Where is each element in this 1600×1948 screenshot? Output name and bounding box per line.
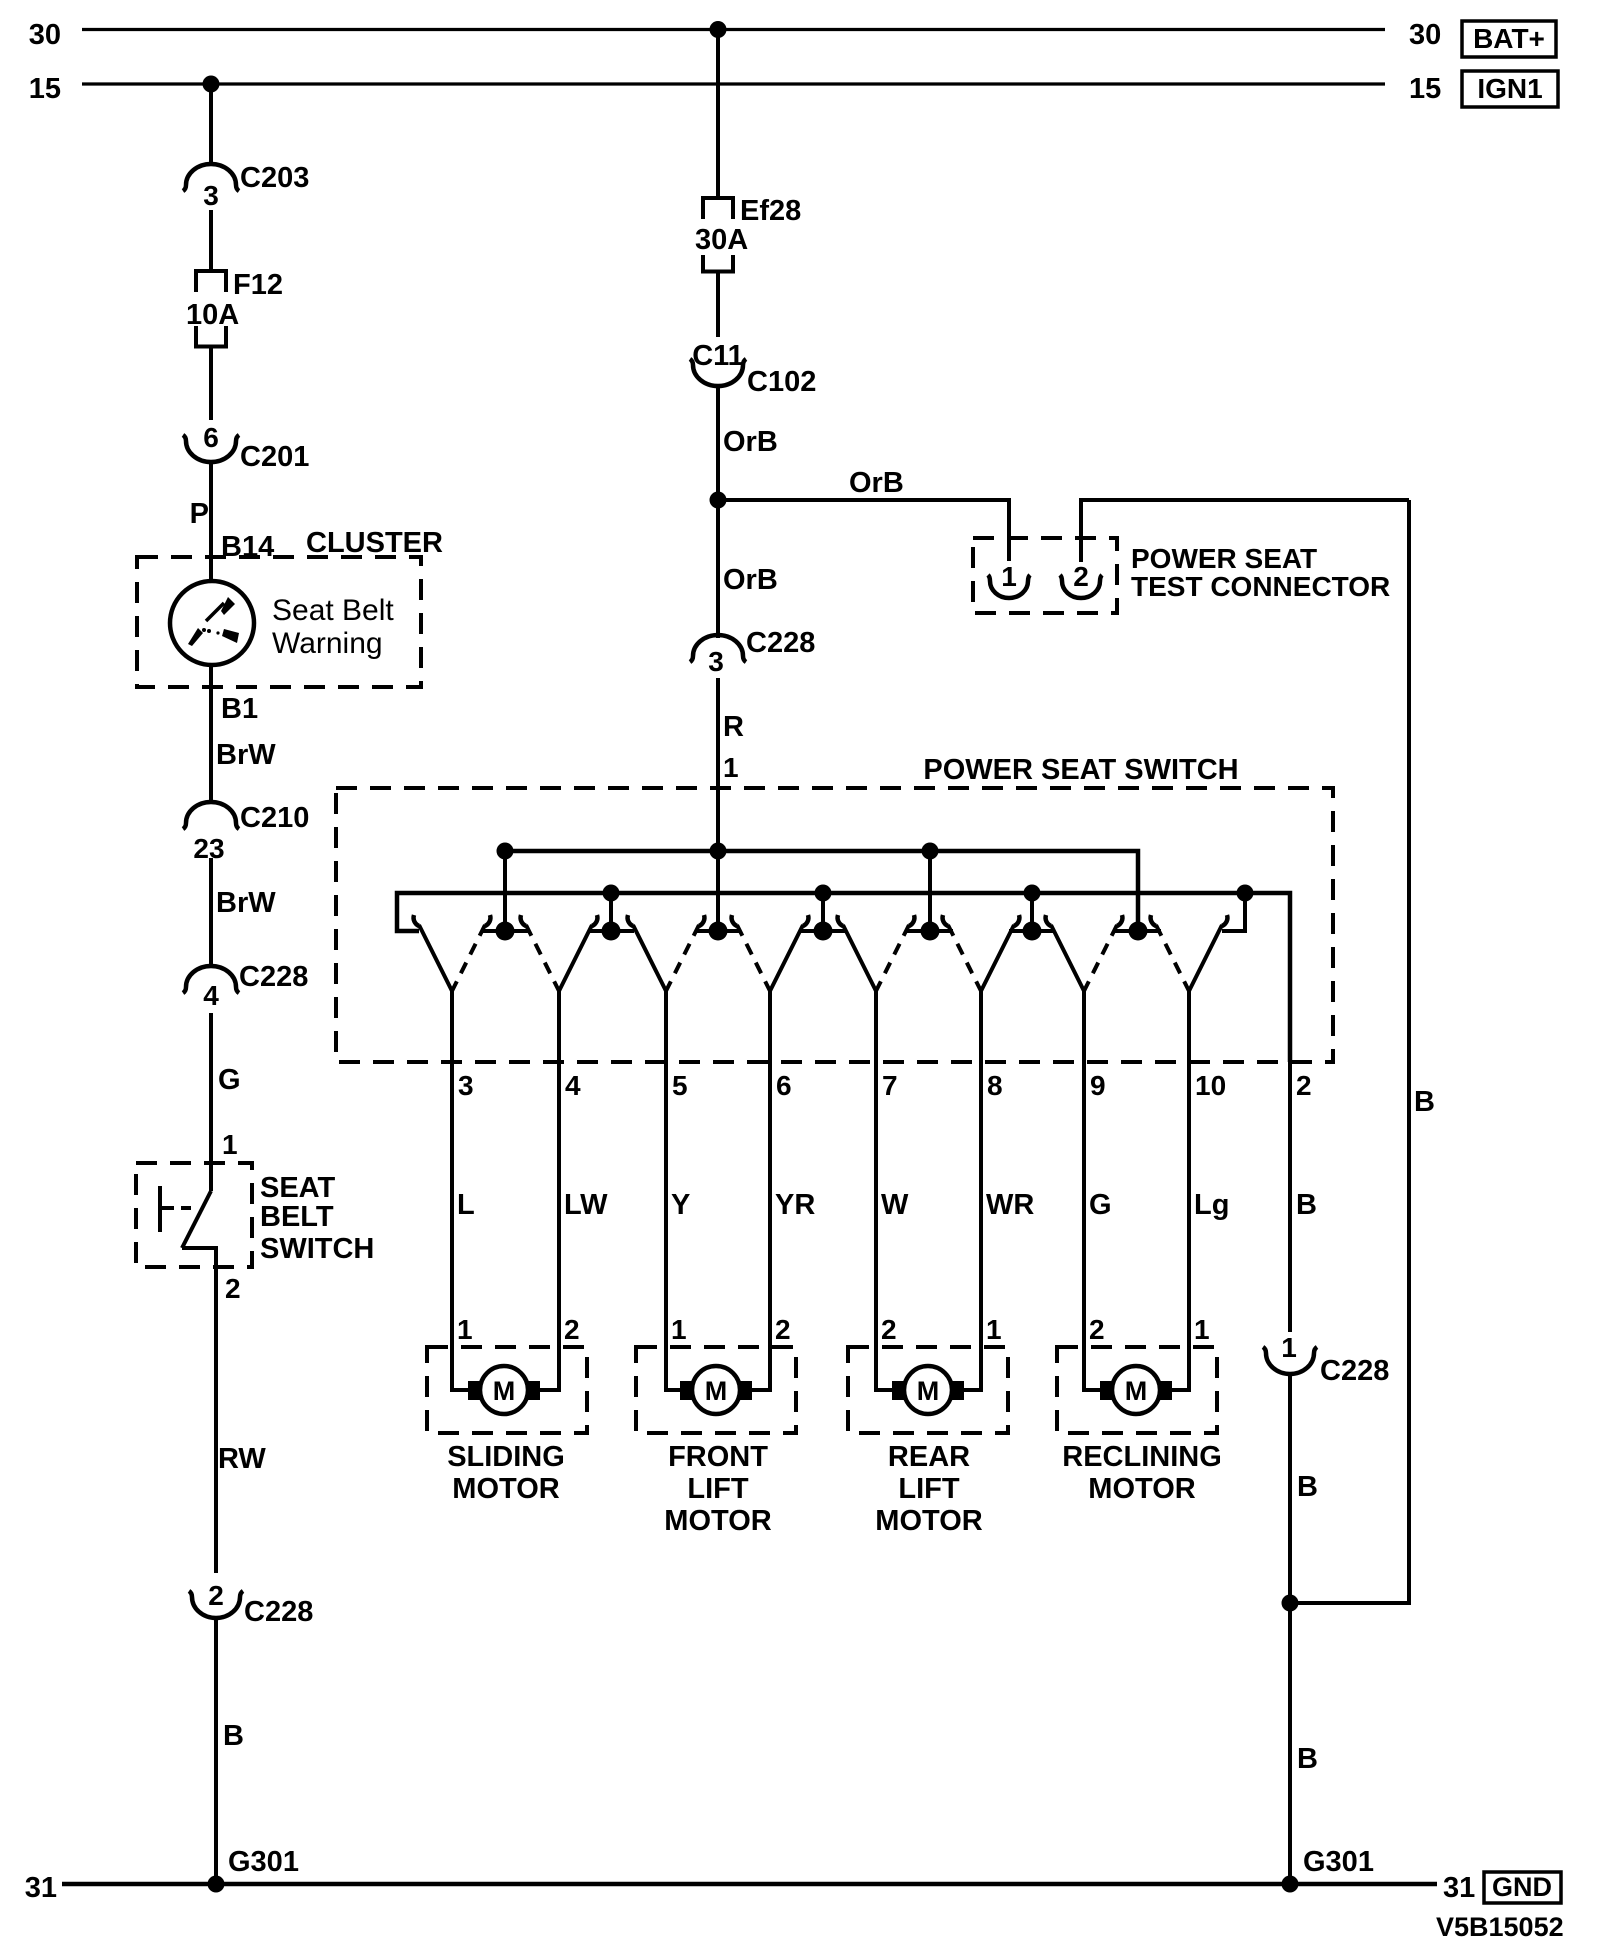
label REAR LIFT MOTOR: [875, 1441, 982, 1537]
label FRONT LIFT MOTOR: [664, 1441, 771, 1537]
svg-text:IGN1: IGN1: [1477, 73, 1542, 104]
wire riser contact 6: [1030, 893, 1034, 931]
wire rail 30 (BAT+): [82, 28, 1385, 31]
wire pin 6 to front lift motor, YR: [752, 989, 770, 1390]
svg-text:OrB: OrB: [723, 426, 778, 458]
node junction rail15 / C203 feed: [203, 76, 220, 93]
svg-text:MOTOR: MOTOR: [664, 1505, 771, 1537]
label SEAT BELT SWITCH: [260, 1172, 374, 1265]
label Seat Belt Warning: [272, 594, 394, 660]
svg-text:C203: C203: [240, 162, 309, 194]
svg-text:LIFT: LIFT: [687, 1473, 748, 1505]
svg-text:5: 5: [672, 1070, 688, 1101]
node top bus junctions: [497, 843, 939, 860]
svg-text:L: L: [457, 1189, 475, 1221]
node junction B wires: [1282, 1595, 1299, 1612]
svg-text:2: 2: [225, 1273, 241, 1304]
wire rail15 to connector C203: [209, 84, 213, 166]
wire pin 10 to reclining motor, Lg: [1170, 989, 1189, 1390]
svg-text:Seat Belt: Seat Belt: [272, 594, 394, 627]
svg-text:P: P: [190, 498, 209, 530]
svg-text:30: 30: [1409, 19, 1441, 51]
svg-text:3: 3: [458, 1070, 474, 1101]
wire riser contact 8: [1222, 893, 1245, 931]
svg-text:C228: C228: [239, 961, 308, 993]
wire C210 to C228, BrW: [209, 858, 213, 967]
wire riser contact 2: [609, 893, 613, 931]
wire riser contact 5: [928, 851, 932, 931]
svg-text:4: 4: [203, 980, 219, 1011]
svg-text:C102: C102: [747, 366, 816, 398]
test connector pin 1: [988, 561, 1030, 598]
svg-text:SEAT: SEAT: [260, 1172, 335, 1204]
svg-text:F12: F12: [233, 269, 283, 301]
cluster box: [137, 557, 421, 687]
terminal IGN1: [1462, 71, 1558, 107]
svg-text:8: 8: [987, 1070, 1003, 1101]
wire C201 to cluster, P: [209, 461, 213, 583]
svg-text:TEST CONNECTOR: TEST CONNECTOR: [1131, 571, 1390, 602]
svg-text:1: 1: [986, 1314, 1002, 1345]
wire contact tick 6: [1009, 929, 1055, 933]
switch 7 (pin 9): [1046, 915, 1123, 991]
connector C228 pin 3 (mid): [690, 627, 815, 677]
switch 6 (pin 8): [943, 915, 1020, 991]
power seat test connector box: [973, 538, 1117, 613]
wire C102 to junction, OrB: [716, 386, 720, 502]
svg-text:2: 2: [881, 1314, 897, 1345]
svg-text:OrB: OrB: [849, 467, 904, 499]
svg-text:V5B15052: V5B15052: [1436, 1912, 1564, 1942]
svg-text:YR: YR: [775, 1189, 815, 1221]
svg-text:15: 15: [29, 73, 61, 105]
wire seat belt switch to C228, RW: [214, 1248, 218, 1573]
svg-text:GND: GND: [1492, 1872, 1552, 1902]
node junction OrB split: [710, 492, 727, 509]
wire top bus: [505, 851, 1138, 931]
svg-text:WR: WR: [986, 1189, 1034, 1221]
wire switch pin 2 to C228, B: [1288, 1062, 1292, 1332]
svg-text:G301: G301: [1303, 1846, 1374, 1878]
svg-text:Y: Y: [671, 1189, 690, 1221]
switch 3 (pin 5): [628, 915, 705, 991]
wire rail 15 (IGN1): [82, 82, 1385, 85]
node G301 left on rail 31: [208, 1876, 225, 1893]
svg-text:SWITCH: SWITCH: [260, 1233, 374, 1265]
node contact dots: [496, 922, 1148, 941]
wire C228 to seat belt switch, G: [209, 1013, 213, 1191]
wire pin 5 to front lift motor, Y: [666, 989, 682, 1390]
svg-text:30: 30: [29, 19, 61, 51]
svg-text:B: B: [1297, 1743, 1318, 1775]
svg-text:BrW: BrW: [216, 887, 276, 919]
test connector pin 2: [1060, 561, 1102, 598]
svg-text:1: 1: [457, 1314, 473, 1345]
svg-text:MOTOR: MOTOR: [452, 1473, 559, 1505]
wire rail 31 (GND): [62, 1882, 1437, 1887]
wire right side B from test connector down: [1290, 500, 1409, 1603]
reclining motor M4: [1057, 1347, 1217, 1433]
wire pin 9 to reclining motor, G: [1084, 989, 1102, 1390]
svg-text:10A: 10A: [186, 299, 239, 331]
wire contact tick 2: [588, 929, 634, 933]
svg-text:2: 2: [1296, 1070, 1312, 1101]
svg-text:1: 1: [222, 1129, 238, 1160]
wire riser contact 1: [503, 851, 507, 931]
svg-text:Lg: Lg: [1194, 1189, 1229, 1221]
svg-text:MOTOR: MOTOR: [1088, 1473, 1195, 1505]
svg-text:CLUSTER: CLUSTER: [306, 527, 443, 559]
svg-text:7: 7: [882, 1070, 898, 1101]
svg-text:Warning: Warning: [272, 627, 383, 660]
svg-text:POWER SEAT: POWER SEAT: [1131, 543, 1317, 574]
wire pin 4 to sliding motor, LW: [540, 989, 559, 1390]
terminal GND: [1484, 1872, 1561, 1903]
svg-text:POWER SEAT SWITCH: POWER SEAT SWITCH: [923, 754, 1238, 786]
wire riser contact 4: [821, 893, 825, 931]
svg-text:W: W: [881, 1189, 909, 1221]
svg-text:M: M: [917, 1376, 940, 1406]
label RECLINING MOTOR: [1062, 1441, 1222, 1505]
svg-text:M: M: [705, 1376, 728, 1406]
wire contact tick 4: [800, 929, 846, 933]
wire lower bus: [397, 893, 1290, 1062]
wire contact tick 5: [907, 929, 953, 933]
svg-text:C201: C201: [240, 441, 309, 473]
svg-text:B: B: [1296, 1189, 1317, 1221]
svg-text:G: G: [218, 1064, 241, 1096]
wire fuse Ef28 to connector C11: [716, 272, 720, 338]
wire pin 8 to rear lift motor, WR: [962, 989, 981, 1390]
wire pin 7 to rear lift motor, W: [876, 989, 894, 1390]
seat belt switch box: [136, 1163, 252, 1267]
svg-text:1: 1: [723, 752, 739, 783]
svg-text:3: 3: [203, 180, 219, 211]
front lift motor M2: [636, 1347, 796, 1433]
wire contact tick 3: [695, 929, 741, 933]
svg-text:31: 31: [1443, 1872, 1475, 1904]
connector C11 C102: [690, 340, 816, 398]
svg-text:LIFT: LIFT: [898, 1473, 959, 1505]
wire C228 to switch box pin 1, R: [716, 678, 720, 931]
wire contact tick 1: [482, 929, 528, 933]
svg-text:MOTOR: MOTOR: [875, 1505, 982, 1537]
seat belt warning indicator gauge: [170, 581, 254, 665]
svg-text:9: 9: [1090, 1070, 1106, 1101]
wire C203 to fuse F12: [209, 210, 213, 271]
wire test connector pin 2 up and right: [1081, 500, 1409, 562]
svg-text:RW: RW: [218, 1443, 266, 1475]
wire gauge to C210, BrW: [209, 665, 213, 803]
svg-text:C11: C11: [692, 340, 744, 372]
wire C228 to ground G301, B: [214, 1618, 218, 1884]
power seat switch box: [336, 788, 1333, 1062]
svg-text:15: 15: [1409, 73, 1441, 105]
svg-text:2: 2: [1073, 561, 1089, 592]
rear lift motor M3: [848, 1347, 1008, 1433]
svg-text:2: 2: [1089, 1314, 1105, 1345]
svg-text:B: B: [1414, 1086, 1435, 1118]
svg-text:4: 4: [565, 1070, 581, 1101]
wire rail30 to fuse Ef28: [716, 30, 720, 199]
svg-text:2: 2: [775, 1314, 791, 1345]
svg-text:B: B: [223, 1720, 244, 1752]
wire F12 to connector C201: [209, 347, 213, 421]
switch 5 (pin 7): [838, 915, 915, 991]
connector C203 pin 3: [183, 162, 309, 211]
connector C228 pin 2 (bottom left): [189, 1580, 313, 1628]
svg-text:30A: 30A: [695, 224, 748, 256]
node junction rail30 / Ef28 feed: [710, 21, 727, 38]
connector C228 pin 1 (right): [1263, 1332, 1389, 1387]
sliding motor M1: [427, 1347, 587, 1433]
switch 2 (pin 4): [521, 915, 598, 991]
label SLIDING MOTOR: [447, 1441, 565, 1505]
svg-text:G301: G301: [228, 1846, 299, 1878]
svg-text:BrW: BrW: [216, 739, 276, 771]
terminal BAT+: [1462, 21, 1556, 57]
svg-text:OrB: OrB: [723, 564, 778, 596]
svg-text:RECLINING: RECLINING: [1062, 1441, 1222, 1473]
switch 4 (pin 6): [732, 915, 809, 991]
switch 1 (pin 3): [414, 915, 491, 991]
svg-text:C228: C228: [244, 1596, 313, 1628]
svg-text:B1: B1: [221, 693, 258, 725]
seat belt switch contacts: [160, 1186, 216, 1267]
switch 8 (pin 10): [1151, 915, 1228, 991]
connector C201 pin 6: [183, 422, 309, 473]
fuse F12 10A: [186, 269, 283, 347]
wire OrB horizontal to test connector pin 1: [718, 500, 1009, 561]
svg-text:C228: C228: [746, 627, 815, 659]
svg-text:M: M: [1125, 1376, 1148, 1406]
svg-text:1: 1: [1281, 1332, 1297, 1363]
svg-text:B: B: [1297, 1471, 1318, 1503]
wire junction to C228 (mid), OrB: [716, 500, 720, 638]
fuse Ef28 30A: [695, 195, 801, 272]
svg-text:G: G: [1089, 1189, 1112, 1221]
svg-text:6: 6: [203, 422, 219, 453]
wire pin 3 to sliding motor, L: [452, 989, 470, 1390]
svg-text:C228: C228: [1320, 1355, 1389, 1387]
svg-text:1: 1: [1194, 1314, 1210, 1345]
connector C210 pin 23: [183, 802, 309, 864]
svg-text:FRONT: FRONT: [668, 1441, 768, 1473]
svg-text:BAT+: BAT+: [1473, 23, 1545, 54]
svg-text:REAR: REAR: [888, 1441, 970, 1473]
svg-text:SLIDING: SLIDING: [447, 1441, 565, 1473]
svg-text:2: 2: [564, 1314, 580, 1345]
svg-text:6: 6: [776, 1070, 792, 1101]
svg-text:R: R: [723, 711, 744, 743]
svg-text:LW: LW: [564, 1189, 608, 1221]
svg-text:10: 10: [1195, 1070, 1226, 1101]
svg-text:1: 1: [1001, 561, 1017, 592]
svg-text:3: 3: [708, 646, 724, 677]
svg-text:Ef28: Ef28: [740, 195, 801, 227]
wire C228 to junction, B: [1288, 1374, 1292, 1884]
label POWER SEAT TEST CONNECTOR: [1131, 543, 1390, 602]
svg-text:31: 31: [25, 1872, 57, 1904]
svg-text:BELT: BELT: [260, 1201, 334, 1233]
node lower bus junctions: [603, 885, 1254, 902]
svg-text:2: 2: [208, 1580, 224, 1611]
svg-text:M: M: [493, 1376, 516, 1406]
svg-text:1: 1: [671, 1314, 687, 1345]
node G301 right on rail 31: [1282, 1876, 1299, 1893]
connector C228 pin 4 (left): [183, 961, 308, 1011]
svg-text:C210: C210: [240, 802, 309, 834]
wire contact tick 7: [1115, 929, 1161, 933]
